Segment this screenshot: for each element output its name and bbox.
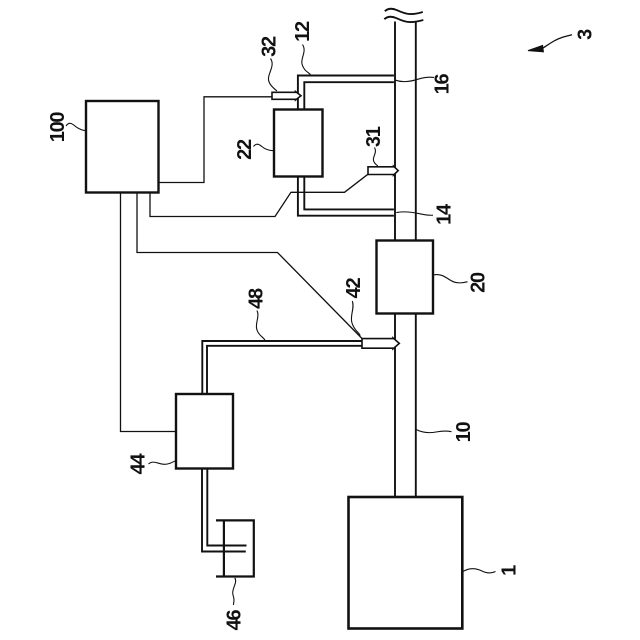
svg-text:20: 20 <box>468 272 490 293</box>
adsorber box 22 <box>274 110 323 177</box>
injector 32 <box>272 92 301 101</box>
svg-text:12: 12 <box>292 21 314 42</box>
svg-text:14: 14 <box>434 203 456 225</box>
leader 20 <box>433 275 467 283</box>
bypass passage 12 (double line loop) <box>298 76 394 216</box>
svg-text:48: 48 <box>246 288 268 309</box>
leader 48 <box>256 311 265 341</box>
injector 42 <box>362 338 399 349</box>
leader 32 <box>268 59 277 92</box>
svg-text:46: 46 <box>224 610 246 631</box>
svg-text:31: 31 <box>363 126 385 147</box>
tank 46 <box>216 520 254 576</box>
leader 100 <box>66 123 87 130</box>
leader 46 <box>233 578 236 605</box>
wire ECU 100 to injector 32 <box>159 97 273 183</box>
leader 22 <box>254 144 274 150</box>
svg-text:42: 42 <box>343 278 365 299</box>
leader 10 <box>416 429 452 432</box>
svg-text:44: 44 <box>128 453 150 475</box>
leader 42 <box>351 301 360 336</box>
ECU box 100 <box>86 101 159 193</box>
leader 1 <box>463 569 495 573</box>
svg-text:10: 10 <box>453 422 475 443</box>
svg-text:100: 100 <box>47 112 69 143</box>
leader 44 <box>149 461 176 464</box>
wire ECU 100 to injector 42 <box>137 193 362 339</box>
pipe break squiggle top <box>384 9 423 22</box>
arrow 3 <box>543 35 573 49</box>
leader 12 <box>302 45 311 75</box>
pump box 44 <box>176 394 233 469</box>
wire ECU 100 to injector 31 <box>150 174 368 216</box>
engine box 1 <box>349 497 463 629</box>
svg-text:16: 16 <box>432 74 454 95</box>
svg-text:1: 1 <box>499 565 521 576</box>
svg-text:22: 22 <box>234 139 256 160</box>
main exhaust pipe 10 (vertical double line) <box>395 21 416 497</box>
leader 16 <box>396 77 435 82</box>
svg-text:3: 3 <box>575 29 597 40</box>
leader 14 <box>396 212 433 215</box>
catalyst box 20 <box>377 241 434 314</box>
injector 31 <box>368 166 398 175</box>
pipe pump 44 to tank 46 (double line) <box>202 468 247 552</box>
wire ECU 100 to pump 44 <box>121 193 177 432</box>
supply line 48 (double line from injector 42 to pump 44) <box>202 341 362 395</box>
svg-text:32: 32 <box>259 36 281 57</box>
leader 31 <box>373 148 377 167</box>
